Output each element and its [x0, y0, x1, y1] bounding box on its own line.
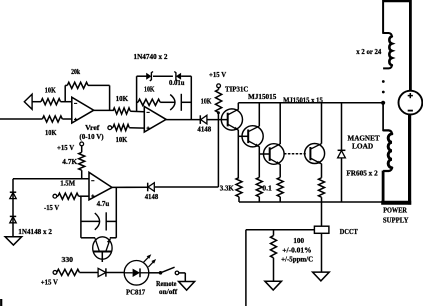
label TIP31C [225, 84, 248, 93]
wire [184, 273, 186, 282]
svg-text:+/-5ppm/C: +/-5ppm/C [281, 254, 313, 263]
transistor Q4 MJ15015 [305, 144, 325, 164]
label -15V [44, 203, 60, 212]
wire [137, 75, 148, 77]
wire [88, 84, 110, 86]
light arrow [148, 259, 156, 267]
DCCT sensor box [314, 226, 329, 233]
svg-text:10K: 10K [116, 94, 129, 103]
wire [279, 103, 281, 144]
wire [32, 101, 41, 103]
label D4 4148 [145, 192, 159, 201]
resistor R12 100 [271, 236, 277, 258]
svg-text:+15 V: +15 V [41, 278, 59, 287]
wire [273, 230, 275, 236]
wire [321, 103, 323, 144]
wire [245, 230, 247, 306]
wire [166, 119, 200, 121]
wire [258, 146, 260, 177]
diode D4 4148 [148, 183, 155, 192]
ground [5, 237, 22, 245]
wire [181, 101, 191, 103]
light arrow [144, 254, 152, 262]
wire [258, 103, 260, 126]
wire control rail [217, 113, 219, 188]
resistor R4 10K [113, 108, 130, 114]
svg-text:10K: 10K [116, 135, 128, 144]
photo-transistor PC817 output [93, 237, 112, 262]
wire [81, 172, 83, 179]
label R15 330 [62, 255, 74, 264]
capacitor C2 4.7u [95, 212, 106, 230]
label R6 10K [144, 85, 155, 94]
wire [64, 85, 66, 101]
terminal +15V [80, 142, 84, 146]
wire [155, 186, 218, 188]
label C1 0.01u [169, 78, 185, 87]
label +15V bottom [41, 278, 59, 287]
diode D5 FR605 [338, 150, 346, 158]
terminal Vprog input [108, 126, 112, 130]
label R2 10K [45, 128, 57, 137]
resistor R5 10K [113, 124, 129, 130]
wire feedback box left [136, 76, 138, 111]
svg-text:330: 330 [62, 255, 74, 264]
svg-text:1N4148 x 2: 1N4148 x 2 [18, 227, 52, 236]
ground [179, 282, 195, 291]
label +15V mid [57, 143, 75, 152]
wire [65, 84, 67, 86]
wire [112, 186, 148, 188]
label MAGNET [348, 133, 380, 142]
op-amp U2 [144, 107, 166, 133]
svg-text:10K: 10K [144, 85, 155, 94]
resistor R7 10K [216, 90, 222, 113]
wire sense [246, 229, 315, 231]
label R7 10K [201, 96, 212, 105]
wire [153, 75, 173, 77]
wire [12, 179, 14, 237]
label R9 0.1 [262, 183, 272, 192]
svg-text:MJ15015: MJ15015 [248, 92, 277, 101]
op-amp U1 [72, 97, 94, 123]
label x 2 or 24 [356, 47, 381, 56]
zener D1 1N4740 [146, 72, 153, 81]
wire [382, 171, 385, 204]
label R5 10K [116, 135, 128, 144]
wire [321, 202, 323, 226]
svg-text:4148: 4148 [145, 192, 159, 201]
wire [109, 85, 111, 110]
wire [179, 272, 186, 274]
svg-text:4148: 4148 [197, 124, 211, 133]
ground [265, 281, 282, 290]
wire [238, 197, 240, 202]
wire [341, 158, 343, 202]
wire [383, 130, 392, 133]
diode D3 4148 [200, 115, 207, 124]
wire [79, 272, 98, 274]
label tempco [281, 254, 313, 263]
wire [259, 153, 269, 155]
svg-text:POWER: POWER [383, 206, 407, 215]
wire collector bus [238, 102, 383, 104]
wire emitter rail [239, 201, 383, 203]
power supply source circle [399, 91, 423, 115]
wire [279, 197, 281, 202]
resistor R9 0.1 [256, 177, 262, 196]
wire [81, 220, 100, 222]
svg-text:DCCT: DCCT [340, 227, 358, 236]
diode D7 1N4148 [10, 216, 16, 222]
label MJ15015 [248, 92, 277, 101]
label tolerance [282, 245, 311, 254]
wire [383, 65, 392, 68]
wire [383, 168, 392, 171]
junction [217, 111, 220, 114]
resistor R6 10K [138, 99, 160, 105]
svg-text:3.3K: 3.3K [220, 183, 234, 192]
junction [159, 271, 163, 275]
wire [61, 101, 72, 103]
transistor Q2 MJ15015 [242, 126, 263, 147]
transistor Q3 MJ15015 [264, 144, 285, 165]
label MJ15015 x 15 [283, 95, 323, 104]
zener D2 1N4740 [174, 72, 181, 81]
wire dotted parallel [285, 153, 306, 155]
label 1N4148 x 2 [18, 227, 52, 236]
label (0-10 V) [79, 132, 104, 141]
capacitor C1 0.01u [170, 94, 181, 111]
svg-text:+15 V: +15 V [209, 70, 227, 79]
svg-text:on/off: on/off [159, 287, 178, 296]
transformer winding x2or24 [389, 36, 391, 65]
svg-text:10K: 10K [201, 96, 212, 105]
wire [341, 103, 343, 151]
svg-text:4.7u: 4.7u [97, 199, 110, 208]
label DCCT [340, 227, 358, 236]
wire stub [0, 299, 2, 306]
wire [273, 258, 275, 281]
label R3 20k [71, 67, 81, 76]
label C2 4.7u [97, 199, 110, 208]
label R13 4.7K [62, 157, 77, 166]
wire [237, 103, 239, 110]
wire [13, 178, 89, 180]
wire [160, 101, 174, 103]
diode D8 [98, 268, 106, 276]
wire [81, 237, 95, 239]
wire [321, 233, 323, 272]
wire [81, 146, 83, 153]
wire [321, 197, 323, 202]
power supply bottom edge [381, 201, 411, 205]
power supply top edge [383, 0, 410, 2]
resistor R8 3.3K [236, 178, 242, 197]
svg-text:1N4740 x 2: 1N4740 x 2 [134, 52, 168, 61]
switch lever [161, 267, 175, 273]
wire [81, 170, 83, 171]
wire [137, 101, 138, 103]
svg-text:(0-10 V): (0-10 V) [79, 132, 104, 141]
ground [313, 272, 330, 281]
svg-text:PC817: PC817 [126, 287, 145, 296]
svg-text:1.5M: 1.5M [60, 178, 75, 187]
wire [130, 110, 144, 113]
label R1 10K [45, 86, 56, 95]
label R12 100 [293, 236, 304, 245]
svg-text:+15 V: +15 V [57, 143, 75, 152]
svg-text:0.1: 0.1 [262, 183, 272, 192]
resistor R15 330 [57, 269, 80, 275]
svg-text:-15 V: -15 V [44, 203, 60, 212]
magnet load coil [388, 134, 392, 168]
label PC817 [126, 287, 145, 296]
resistor R13 4.7K [79, 152, 85, 170]
wire [110, 237, 117, 239]
wire [106, 220, 116, 222]
wire [279, 164, 281, 177]
wire [80, 196, 82, 238]
resistor R10 0.1 [277, 177, 283, 196]
label Vref [85, 123, 100, 132]
wire [382, 103, 384, 131]
wire [94, 109, 113, 111]
label FR605 x 2 [346, 169, 378, 178]
svg-text:4.7K: 4.7K [62, 157, 77, 166]
wire [0, 118, 42, 120]
wire [383, 33, 392, 36]
wire [106, 272, 124, 274]
wire [57, 195, 58, 197]
svg-text:20k: 20k [71, 67, 81, 76]
wire [321, 164, 323, 178]
wire [218, 88, 220, 90]
label on/off [159, 287, 178, 296]
wire feedback box right [190, 76, 192, 119]
terminal -15V [53, 194, 57, 198]
resistor R14 1.5M [58, 193, 79, 199]
wire [149, 272, 161, 274]
wire [129, 127, 144, 129]
input arrow symbol [24, 94, 32, 109]
svg-text:100: 100 [293, 236, 304, 245]
wire [79, 195, 90, 197]
svg-text:FR605 x 2: FR605 x 2 [346, 169, 378, 178]
junction [381, 101, 385, 105]
op-amp U3 [89, 172, 112, 200]
svg-text:LOAD: LOAD [352, 142, 374, 151]
switch terminal [175, 271, 179, 275]
resistor R3 20k [67, 82, 88, 88]
wire [237, 130, 239, 178]
resistor R11 0.1 [319, 178, 325, 197]
label Remote [156, 279, 177, 288]
svg-text:x 2 or 24: x 2 or 24 [356, 47, 381, 56]
label LOAD [352, 142, 374, 151]
svg-text:MJ15015 x 15: MJ15015 x 15 [283, 95, 323, 104]
wire [62, 118, 72, 120]
label R14 1.5M [60, 178, 75, 187]
svg-text:10K: 10K [45, 86, 56, 95]
label POWER [383, 206, 407, 215]
label D3 4148 [197, 124, 211, 133]
diode D6 1N4148 [10, 192, 16, 198]
svg-text:SUPPLY: SUPPLY [383, 215, 409, 224]
label +15V top [209, 70, 227, 79]
label SUPPLY [383, 215, 409, 224]
resistor R2 10K [42, 116, 62, 122]
label R8 3.3K [220, 183, 234, 192]
power supply left edge [382, 0, 384, 34]
label R4 10K [116, 94, 129, 103]
terminal +15V [217, 84, 221, 88]
transistor Q1 TIP31C [221, 109, 242, 130]
svg-text:10K: 10K [45, 128, 57, 137]
wire dots [382, 80, 385, 93]
label 1N4740 x 2 [134, 52, 168, 61]
terminal +15V [53, 271, 57, 275]
wire [115, 187, 117, 237]
svg-text:Vref: Vref [85, 123, 100, 132]
power supply right edge lower [408, 115, 411, 205]
wire [238, 135, 248, 137]
svg-text:TIP31C: TIP31C [225, 84, 248, 93]
wire [112, 127, 113, 129]
power supply right edge upper [409, 0, 412, 91]
resistor R1 10K [41, 99, 61, 105]
svg-text:0.01u: 0.01u [169, 78, 185, 87]
wire [181, 75, 191, 77]
svg-text:+/-0.01%: +/-0.01% [282, 245, 311, 254]
wire [207, 119, 228, 121]
wire [258, 197, 260, 202]
optocoupler PC817 LED [124, 261, 149, 286]
